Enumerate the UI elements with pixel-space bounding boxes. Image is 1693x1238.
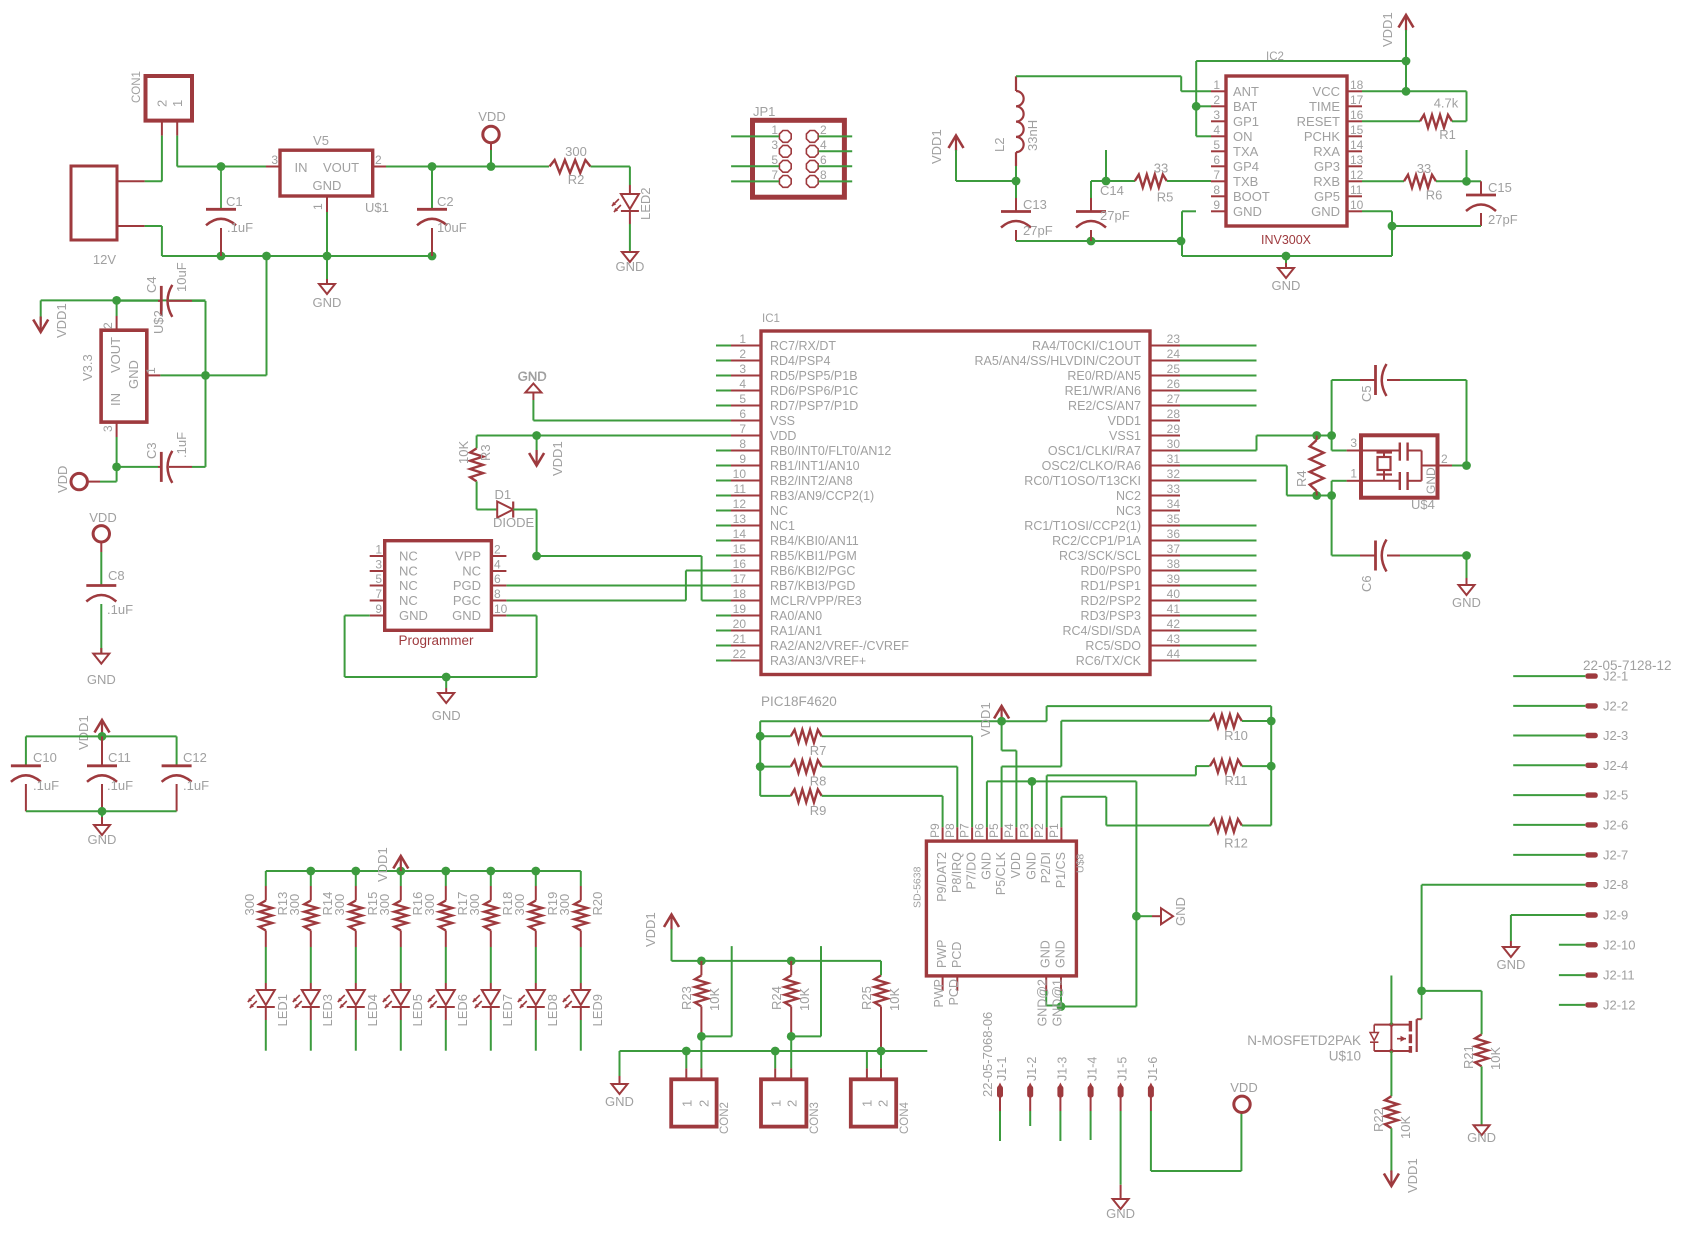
svg-text:U$8: U$8 [1075,854,1087,873]
junction [532,431,541,440]
svg-text:3: 3 [271,153,278,167]
wire [716,346,731,661]
svg-text:P1/CS: P1/CS [1054,852,1068,888]
wire [731,180,779,182]
svg-text:2: 2 [820,123,827,137]
svg-text:C5: C5 [1359,385,1374,402]
svg-text:18: 18 [733,587,747,601]
svg-text:36: 36 [1167,527,1181,541]
svg-text:1: 1 [771,123,778,137]
svg-text:RE2/CS/AN7: RE2/CS/AN7 [1068,399,1141,413]
supply VDD [55,466,117,493]
svg-text:2: 2 [155,100,170,107]
svg-text:VDD: VDD [478,109,505,124]
resistor R22 10K [1371,1096,1413,1139]
svg-text:2: 2 [101,322,115,329]
svg-text:RXB: RXB [1313,174,1340,189]
wire [265,1020,267,1051]
capacitor C12 .1uF [162,750,209,811]
resistor R23 10K [679,961,722,1037]
svg-text:VDD1: VDD1 [54,303,69,338]
connector Programmer [370,541,508,648]
svg-text:PGD: PGD [453,578,481,593]
wire [1513,675,1585,677]
svg-text:GND: GND [605,1094,634,1109]
junction [697,1032,706,1041]
svg-text:JP1: JP1 [753,104,775,119]
voltage regulator U$1 V5 [266,133,389,215]
wire J2-8 net [1422,885,1586,991]
junction [487,162,496,171]
svg-text:NC1: NC1 [770,519,795,533]
svg-text:RC5/SDO: RC5/SDO [1085,639,1141,653]
svg-text:CON2: CON2 [719,1102,731,1134]
svg-text:RC1/T1OSI/CCP2(1): RC1/T1OSI/CCP2(1) [1024,519,1141,533]
svg-text:GND: GND [87,672,116,687]
supply 12V source [71,166,145,267]
svg-text:IN: IN [295,160,308,175]
wire [205,301,207,467]
wire [999,1111,1001,1141]
svg-text:Programmer: Programmer [398,633,474,648]
svg-text:10K: 10K [707,988,722,1011]
ground [1272,256,1301,293]
junction [1327,431,1336,440]
svg-text:OSC1/CLKI/RA7: OSC1/CLKI/RA7 [1048,444,1141,458]
capacitor C1 [206,167,253,257]
junction [112,296,121,305]
svg-text:34: 34 [1167,497,1181,511]
svg-text:PIC18F4620: PIC18F4620 [761,694,837,709]
svg-text:VDD: VDD [55,466,70,493]
svg-text:GND: GND [1106,1206,1135,1221]
ground [432,677,461,723]
svg-text:J1-2: J1-2 [1025,1057,1039,1081]
svg-text:GP1: GP1 [1233,114,1259,129]
wire [513,510,536,557]
wire [1016,240,1181,242]
svg-text:GND: GND [126,360,141,389]
wire [819,135,853,137]
wire source [1390,1051,1392,1096]
wire [1559,1004,1585,1006]
wire [490,947,492,983]
svg-text:2: 2 [1441,452,1448,466]
wire [310,947,312,983]
svg-text:RD2/PSP2: RD2/PSP2 [1081,594,1141,608]
voltage regulator U$2 V3.3 [80,300,160,437]
svg-text:3: 3 [1213,108,1220,122]
junction [1132,912,1141,921]
wire [535,947,537,983]
svg-text:300: 300 [565,144,587,159]
junction [1057,1002,1066,1011]
svg-text:300: 300 [422,894,437,916]
svg-text:13: 13 [1350,153,1364,167]
svg-text:GND: GND [88,832,117,847]
junction [442,673,451,682]
IC IC1 PIC18F4620 [731,313,1180,709]
svg-text:LED6: LED6 [455,994,470,1027]
svg-text:PGC: PGC [453,593,481,608]
svg-text:RD1/PSP1: RD1/PSP1 [1081,579,1141,593]
svg-text:14: 14 [733,527,747,541]
svg-text:2: 2 [785,1100,800,1107]
resistor R11 [1210,760,1271,788]
svg-text:LED7: LED7 [500,994,515,1027]
wire [1151,1111,1242,1171]
svg-text:C6: C6 [1359,575,1374,592]
wire [386,166,549,168]
junction [1417,987,1426,996]
junction [1462,177,1471,186]
wire GND net of IC2 [1182,211,1392,256]
svg-text:ANT: ANT [1233,84,1259,99]
svg-text:23: 23 [1167,332,1181,346]
svg-text:LED3: LED3 [320,994,335,1027]
junction [1087,237,1096,246]
svg-text:3: 3 [101,425,115,432]
wire [26,736,177,765]
resistor R14 300 [287,871,335,947]
LED LED9 [563,983,605,1027]
svg-text:RA1/AN1: RA1/AN1 [770,624,822,638]
svg-text:RD0/PSP0: RD0/PSP0 [1081,564,1141,578]
svg-text:R6: R6 [1426,188,1443,203]
wire [1513,824,1585,826]
junction [396,867,405,876]
svg-text:PCD: PCD [950,942,964,968]
svg-text:R25: R25 [859,986,874,1010]
svg-text:J2-6: J2-6 [1603,817,1628,832]
LED LED7 [473,983,515,1027]
svg-text:U$2: U$2 [151,310,166,334]
wire [310,1020,312,1051]
svg-text:1: 1 [1350,467,1357,481]
junction [697,957,706,966]
junction [756,732,765,741]
junction [1282,252,1291,261]
svg-text:R3: R3 [478,444,493,461]
svg-text:P9/DAT2: P9/DAT2 [935,852,949,902]
svg-text:C11: C11 [108,750,131,765]
resistor R1 4.7k [1362,96,1467,143]
svg-text:26: 26 [1167,377,1181,391]
svg-text:.1uF: .1uF [227,220,253,235]
svg-text:R5: R5 [1157,190,1174,205]
svg-text:R22: R22 [1371,1108,1386,1132]
svg-text:R20: R20 [590,892,605,916]
svg-text:GND@1: GND@1 [1051,979,1065,1026]
LED LED6 [428,983,470,1027]
wire [1059,1111,1061,1141]
capacitor C8 .1uF [86,568,133,654]
LED LED1 [248,983,290,1027]
svg-text:300: 300 [512,894,527,916]
svg-text:PCD: PCD [947,979,961,1005]
svg-text:J2-7: J2-7 [1603,847,1628,862]
svg-text:33: 33 [1154,161,1168,176]
svg-text:VDD1: VDD1 [929,129,944,164]
svg-text:R2: R2 [568,172,585,187]
svg-text:27pF: 27pF [1023,223,1053,238]
ground at VSS [518,369,731,421]
svg-text:ON: ON [1233,129,1253,144]
wire [116,437,118,467]
wire VDD pin7 [477,435,731,437]
svg-text:2: 2 [876,1100,891,1107]
svg-text:21: 21 [733,632,747,646]
svg-text:GND: GND [615,259,644,274]
svg-text:11: 11 [734,482,747,496]
svg-text:BOOT: BOOT [1233,189,1270,204]
junction [1192,102,1201,111]
svg-text:RC7/RX/DT: RC7/RX/DT [770,339,836,353]
svg-text:12: 12 [733,497,747,511]
wire [1513,705,1585,707]
wire [1362,91,1467,121]
svg-text:RC6/TX/CK: RC6/TX/CK [1076,654,1142,668]
svg-text:P3: P3 [1017,823,1031,838]
svg-text:8: 8 [1213,183,1220,197]
svg-text:VPP: VPP [455,549,481,564]
svg-text:VOUT: VOUT [108,337,123,373]
svg-text:J1-4: J1-4 [1086,1057,1100,1081]
svg-text:GND: GND [452,608,481,623]
svg-text:5: 5 [1213,138,1220,152]
svg-text:15: 15 [1350,123,1364,137]
svg-text:P5/CLK: P5/CLK [994,851,1008,895]
wire [445,947,447,983]
svg-text:GND: GND [1054,940,1068,968]
svg-text:1: 1 [311,203,325,210]
svg-text:19: 19 [733,602,747,616]
svg-text:24: 24 [1167,347,1181,361]
wire [1466,150,1468,181]
junction [1102,177,1111,186]
svg-text:33: 33 [1167,482,1181,496]
svg-text:1: 1 [170,100,185,107]
svg-text:25: 25 [1167,362,1181,376]
svg-text:U$10: U$10 [1329,1049,1361,1064]
svg-text:4.7k: 4.7k [1434,96,1459,111]
svg-text:GND: GND [1024,852,1038,880]
wire GND net of U$8 [987,781,1137,1006]
capacitor C5 [1332,364,1467,466]
svg-text:4: 4 [820,138,827,152]
resistor R13 300 [242,871,290,947]
svg-text:5: 5 [771,153,778,167]
wire [1452,465,1467,467]
wire R7 to P7 [822,736,972,827]
junction [1177,237,1186,246]
svg-text:NC2: NC2 [1116,489,1141,503]
wire P5 net to R10 [1002,721,1210,828]
svg-text:GND: GND [518,369,547,384]
wire [1513,794,1585,796]
svg-text:J2-1: J2-1 [1603,669,1628,684]
svg-text:RC4/SDI/SDA: RC4/SDI/SDA [1063,624,1142,638]
wire drain [1390,976,1392,1025]
svg-text:U$1: U$1 [365,200,389,215]
junction [1312,491,1321,500]
svg-text:VDD: VDD [1230,1080,1257,1095]
svg-text:6: 6 [1213,153,1220,167]
svg-text:GND: GND [1039,940,1053,968]
svg-text:300: 300 [242,894,257,916]
svg-text:J2-8: J2-8 [1603,877,1628,892]
supply VDD [1230,1080,1257,1118]
svg-text:LED8: LED8 [545,994,560,1027]
svg-text:1: 1 [860,1100,875,1107]
svg-text:P4: P4 [1002,823,1016,838]
resistor R12 [1210,819,1271,851]
wire [355,947,357,983]
svg-text:P6: P6 [972,823,986,838]
svg-text:2: 2 [697,1100,712,1107]
svg-text:P7: P7 [958,823,972,838]
resistor R5 33 [1135,161,1174,205]
wire left bus of R7-R9 [760,721,791,796]
svg-text:J2-5: J2-5 [1603,788,1628,803]
junction [306,867,315,876]
wire [1481,1066,1483,1125]
svg-text:VDD1: VDD1 [978,702,993,737]
svg-text:10K: 10K [797,988,812,1011]
svg-text:P8: P8 [943,823,957,838]
wire [160,374,266,376]
svg-text:GND: GND [1233,204,1262,219]
svg-text:RB6/KBI2/PGC: RB6/KBI2/PGC [770,564,855,578]
svg-text:N-MOSFETD2PAK: N-MOSFETD2PAK [1247,1033,1361,1048]
wire [355,1020,357,1051]
svg-text:RD4/PSP4: RD4/PSP4 [770,354,830,368]
junction [1312,431,1321,440]
svg-text:300: 300 [332,894,347,916]
svg-text:10K: 10K [887,988,902,1011]
wire [819,180,853,182]
svg-text:10uF: 10uF [437,220,467,235]
svg-text:P2/DI: P2/DI [1039,852,1053,883]
svg-text:VCC: VCC [1313,84,1340,99]
capacitor C2 [417,167,467,257]
resistor R19 300 [512,871,560,947]
wire [1196,61,1406,91]
ground [313,256,342,310]
svg-text:39: 39 [1167,572,1181,586]
svg-text:RB1/INT1/AN10: RB1/INT1/AN10 [770,459,860,473]
svg-text:OSC2/CLKO/RA6: OSC2/CLKO/RA6 [1042,459,1141,473]
wire [400,1020,402,1051]
ground [1496,941,1525,972]
svg-text:RB3/AN9/CCP2(1): RB3/AN9/CCP2(1) [770,489,874,503]
transistor Q U$10 N-MOSFETD2PAK [1247,991,1421,1064]
svg-text:C15: C15 [1488,180,1512,195]
svg-text:VDD1: VDD1 [1380,12,1395,47]
svg-text:R23: R23 [679,986,694,1010]
svg-text:8: 8 [820,168,827,182]
svg-text:LED4: LED4 [365,994,380,1027]
resistor R25 10K [859,975,902,1051]
svg-text:10: 10 [1350,198,1364,212]
ground [615,252,644,274]
svg-text:J1-1: J1-1 [995,1057,1009,1081]
svg-text:C14: C14 [1100,183,1124,198]
svg-text:GND: GND [399,608,428,623]
junction [1462,551,1471,560]
svg-text:P1: P1 [1047,823,1061,838]
wire [1120,1111,1122,1185]
junction [756,762,765,771]
wire [477,481,498,509]
wire LED bank VDD1 rail [266,870,581,872]
svg-text:300: 300 [557,894,572,916]
wire [326,212,328,256]
wire P1 net to R12 [1061,797,1209,828]
junction [428,162,437,171]
junction [771,1047,780,1056]
svg-text:3: 3 [771,138,778,152]
svg-text:GND@2: GND@2 [1036,979,1050,1026]
svg-text:17: 17 [1350,93,1364,107]
svg-text:41: 41 [1167,602,1181,616]
wire OSC2 to resonator [1180,466,1347,496]
svg-text:LED2: LED2 [638,187,653,220]
svg-text:RB7/KBI3/PGD: RB7/KBI3/PGD [770,579,855,593]
junction [1388,222,1397,231]
capacitor C15 27pF [1392,180,1518,227]
svg-text:42: 42 [1167,617,1181,631]
svg-text:RE0/RD/AN5: RE0/RD/AN5 [1067,369,1141,383]
svg-text:16: 16 [733,557,747,571]
svg-text:C4: C4 [144,276,159,293]
svg-text:1: 1 [1213,78,1220,92]
svg-text:P8/IRQ: P8/IRQ [950,852,964,893]
svg-text:C12: C12 [183,750,207,765]
svg-text:15: 15 [733,542,747,556]
svg-text:L2: L2 [992,138,1007,152]
junction [217,252,226,261]
svg-text:P7/DO: P7/DO [965,852,979,890]
svg-text:4: 4 [494,558,501,572]
svg-text:32: 32 [1167,467,1181,481]
svg-text:IC1: IC1 [762,313,780,325]
connector CON4 [851,1051,911,1134]
svg-text:NC: NC [399,593,418,608]
svg-text:.1uF: .1uF [33,778,59,793]
svg-text:GND: GND [1272,278,1301,293]
wire [145,226,432,256]
svg-text:GND: GND [313,178,342,193]
junction [201,371,210,380]
resistor R2 300 [550,144,591,187]
svg-text:DIODE: DIODE [493,515,535,530]
wire [265,947,267,983]
connector CON1 [131,71,192,136]
svg-text:4: 4 [1213,123,1220,137]
supply VDD [478,109,505,167]
svg-text:2: 2 [739,347,746,361]
wire P2 net to R11 [1047,766,1210,827]
wire [26,810,177,812]
junction [441,867,450,876]
resistor R18 300 [467,871,515,947]
svg-text:BAT: BAT [1233,99,1257,114]
wire [266,256,268,375]
svg-text:R21: R21 [1461,1045,1476,1069]
connector CON3 [761,1036,821,1134]
svg-text:IC2: IC2 [1266,51,1284,63]
